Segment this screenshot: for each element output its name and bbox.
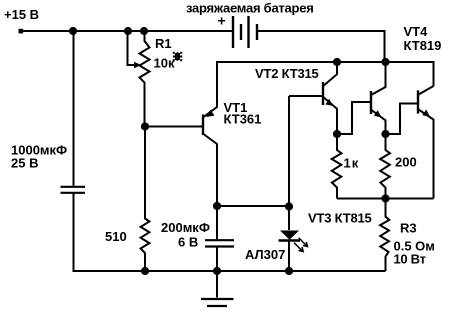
transistor VT1 emitter [204,62,218,117]
node R3 top [381,194,389,202]
VT2 emitter arrowhead [325,99,333,106]
svg-text:+15 В: +15 В [4,7,39,22]
LED light arrows [294,238,308,252]
transistor Q VT3 bar [370,91,372,114]
LED VD triangle [280,231,299,240]
node R1 bottom / VT1 base [141,122,149,130]
wire bottom rail [73,270,386,272]
svg-text:510: 510 [105,229,127,244]
resistor 1k [332,136,342,199]
label asterisk [173,52,182,60]
svg-text:VT4: VT4 [404,24,429,39]
R1 wiper arrowhead [134,62,141,68]
resistor R1 [140,33,150,124]
svg-text:VT2 КТ315: VT2 КТ315 [255,66,319,81]
node VT2 emitter / 1k [333,130,341,138]
wire VT2 base [289,95,322,97]
svg-text:КТ819: КТ819 [404,38,442,53]
terminal +15V [19,29,24,34]
resistor 510 [141,128,150,269]
svg-text:АЛ307: АЛ307 [245,247,285,262]
node wiper junction [124,27,132,35]
wire rail y62 [216,62,434,86]
transistor Q VT2 bar [322,82,324,105]
ground bars [201,299,234,306]
transistor VT2 collector [324,64,338,86]
wire VT1 collector to 200uF [216,208,218,239]
svg-text:VT3 КТ815: VT3 КТ815 [308,211,372,226]
transistor Q VT1 bar [202,115,204,136]
wire VT1 collector to LED node [219,205,289,207]
transistor VT4 emitter [419,110,434,199]
capacitor C2 200uF plates [205,240,234,246]
wire 1000uF to bottom rail [73,194,75,270]
svg-text:6 В: 6 В [178,235,198,250]
LED anode lead [288,206,290,230]
svg-text:1к: 1к [344,156,360,171]
wire VT3 base link [339,102,370,134]
transistor VT3 collector [372,64,386,95]
transistor VT1 collector [204,134,218,204]
wire VT1 base [147,126,202,128]
resistor R3 [380,200,389,271]
resistor 200 [380,136,390,197]
node VT1 collector / 200uF [213,202,221,210]
svg-text:R1: R1 [155,36,172,51]
transistor VT2 emitter [324,97,338,131]
node rail62 battery feed [381,58,389,66]
battery GB plates [233,16,249,48]
wire rail y198 [337,198,434,200]
transistor Q VT4 bar [417,90,419,113]
node 510 bottom [141,267,149,275]
VT4 emitter arrowhead [422,110,430,117]
wire left column to 1000uF [73,31,75,186]
svg-text:КТ361: КТ361 [224,112,262,127]
svg-text:200мкФ: 200мкФ [161,220,210,235]
svg-text:200: 200 [395,155,417,170]
wire top rail right of battery [258,31,385,62]
transistor VT4 collector [419,86,434,95]
wire top rail left [21,30,232,32]
capacitor C1 1000uF plates [61,187,86,193]
node ground junction [213,267,221,275]
transistor VT3 emitter [372,110,386,131]
svg-text:10 Вт: 10 Вт [394,252,426,267]
node R1 top junction [140,27,148,35]
VT3 emitter arrowhead [374,110,382,117]
wire VT4 base link [388,104,418,135]
svg-text:+: + [218,13,226,29]
LED cathode lead [288,241,290,269]
VT1 emitter arrowhead (PNP) [206,110,215,117]
LED cathode bar [279,239,301,241]
svg-text:10к: 10к [154,56,175,71]
svg-text:R3: R3 [400,221,417,236]
node VT3 emitter / 200 [381,130,389,138]
node top-left junction [69,27,77,35]
wire LED column up to VT2 base wire [288,96,290,204]
node LED top [285,202,293,210]
svg-text:25 В: 25 В [11,156,38,171]
wire R1 wiper [128,33,136,65]
node rail62 VT2 collector [333,58,341,66]
node LED bottom [285,267,293,275]
capacitor 200uF lower lead and ground lead [216,248,218,298]
svg-text:заряжаемая батарея: заряжаемая батарея [186,1,314,16]
